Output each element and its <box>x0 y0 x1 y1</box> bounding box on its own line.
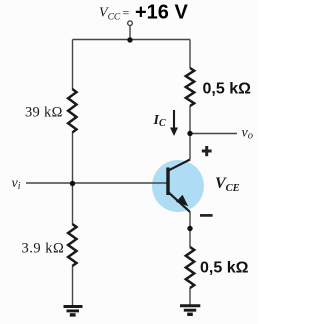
svg-text:=: = <box>123 6 130 20</box>
svg-text:VCC: VCC <box>99 6 121 23</box>
svg-text:IC: IC <box>153 113 166 129</box>
svg-text:3.9 kΩ: 3.9 kΩ <box>22 241 65 257</box>
svg-text:vi: vi <box>12 176 21 192</box>
svg-text:VCE: VCE <box>215 175 240 194</box>
svg-text:vo: vo <box>242 126 253 142</box>
svg-text:+16 V: +16 V <box>135 1 188 23</box>
svg-text:39 kΩ: 39 kΩ <box>25 105 63 121</box>
svg-text:0,5 kΩ: 0,5 kΩ <box>200 260 249 277</box>
svg-text:0,5 kΩ: 0,5 kΩ <box>203 81 252 98</box>
